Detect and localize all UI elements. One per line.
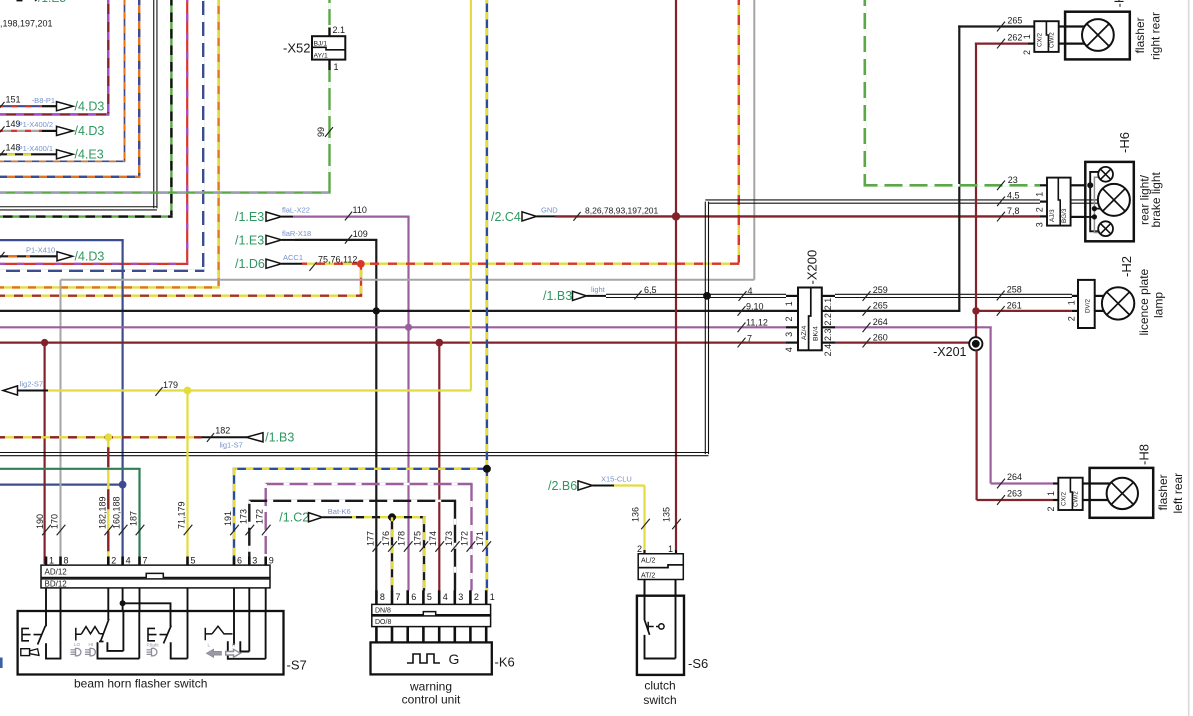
svg-text:/4.D3: /4.D3 (75, 124, 105, 138)
junction dot yellow x108.3 (104, 433, 112, 441)
K6 pin stubs (375, 590, 378, 604)
svg-text:CX/2: CX/2 (1037, 33, 1044, 47)
K6 comb teeth (375, 627, 378, 643)
svg-text:AJ/3: AJ/3 (1049, 209, 1056, 222)
svg-text:/2.C4: /2.C4 (491, 210, 521, 224)
connector AD/12 (41, 565, 270, 577)
S7 switch2 actuator zigzag (76, 627, 104, 641)
h (0, 326, 786, 328)
S7 switch3 cup to pin5 (171, 642, 188, 658)
h (265, 483, 473, 485)
svg-text:warning: warning (409, 680, 452, 694)
svg-text:BJ/1: BJ/1 (314, 41, 328, 48)
arrow /4.D3 row 151 (42, 105, 57, 107)
svg-text:179: 179 (163, 380, 178, 390)
svg-text:/1.E3: /1.E3 (235, 210, 264, 224)
svg-text:AD/12: AD/12 (45, 568, 68, 577)
svg-text:BK/4: BK/4 (813, 326, 820, 341)
junction dot darkred x976 y310.9 (972, 307, 979, 314)
svg-text:/4.E3: /4.E3 (75, 148, 104, 162)
v (643, 486, 645, 551)
svg-text:6: 6 (411, 592, 416, 602)
svg-text:8,26,78,93,197,201: 8,26,78,93,197,201 (585, 206, 659, 216)
v (186, 391, 188, 565)
h (864, 184, 1041, 187)
S6 pin1 drop (675, 596, 677, 659)
svg-text:AZ/4: AZ/4 (801, 325, 808, 340)
svg-text:175: 175 (412, 531, 422, 546)
lamp H2 licence plate (1102, 287, 1134, 319)
v (60, 280, 62, 564)
junction dot ACC1 x361 (357, 260, 365, 268)
svg-text:L: L (208, 643, 211, 648)
h (0, 484, 123, 486)
v (124, 0, 126, 161)
svg-text:177: 177 (365, 531, 375, 546)
svg-text:178: 178 (397, 531, 407, 546)
white stub 4,5 to big lamp (1071, 199, 1098, 201)
svg-text:9,10: 9,10 (746, 301, 764, 311)
stub H8 pin2 darkred (1053, 499, 1058, 501)
arrow /4.E3 row 148 (33, 153, 57, 155)
v (407, 217, 409, 591)
svg-text:-H6: -H6 (1117, 132, 1132, 153)
junction dot darkred x44.6 (41, 339, 48, 346)
svg-text:-S6: -S6 (688, 656, 708, 671)
h (0, 215, 173, 217)
S7 P.light icon (147, 650, 152, 655)
svg-text:lig1-S7: lig1-S7 (220, 440, 243, 449)
stub 4,5 into H6 (1040, 201, 1047, 203)
wire 149 gray/red (0, 130, 42, 132)
S7 switch4 inner cup to pin3 (240, 641, 249, 651)
svg-text:5: 5 (191, 556, 196, 566)
v (989, 327, 991, 483)
svg-text:265: 265 (873, 301, 888, 311)
svg-text:flaR-X18: flaR-X18 (282, 229, 311, 238)
svg-text:136: 136 (631, 507, 641, 522)
H6 internal tail wire (1090, 172, 1099, 231)
S7 LO beam icon (71, 650, 76, 655)
h (0, 176, 140, 178)
arrow lig2-S7 (3, 386, 18, 395)
h (958, 25, 1034, 27)
svg-text:6,5: 6,5 (644, 285, 657, 295)
svg-text:7,8: 7,8 (1007, 206, 1020, 216)
lamp H6 top small (1098, 167, 1113, 182)
cut-off arrow row at top edge (17, 0, 23, 1)
svg-text:DV/2: DV/2 (1085, 299, 1092, 313)
svg-text:264: 264 (873, 317, 888, 327)
svg-text:/1.B3: /1.B3 (265, 431, 294, 445)
K6 square wave symbol (407, 654, 440, 663)
h (61, 279, 755, 281)
svg-text:1: 1 (1022, 34, 1032, 39)
lamp box H8 (1090, 468, 1154, 518)
svg-text:X15-CLU: X15-CLU (601, 474, 632, 483)
svg-text:2: 2 (1046, 506, 1056, 511)
v (328, 0, 330, 29)
connector AT/2 (638, 565, 683, 580)
svg-text:1: 1 (1067, 300, 1077, 305)
h (302, 263, 740, 265)
connector DV/2 of H2 (1078, 280, 1095, 328)
lamp H6 big (1098, 184, 1130, 216)
svg-text:control unit: control unit (402, 693, 461, 707)
svg-text:/4.D3: /4.D3 (75, 250, 105, 264)
svg-text:AT/2: AT/2 (641, 572, 655, 579)
blue tick left edge (0, 658, 3, 669)
svg-text:-H8: -H8 (1137, 444, 1152, 465)
v (753, 0, 755, 280)
H6 internal darkred entry (1085, 216, 1094, 218)
S7 switch1 E symbol (22, 628, 41, 640)
svg-text:/1.B3: /1.B3 (543, 289, 572, 303)
v (43, 343, 45, 564)
stubs H8 connector to lamp box (1083, 482, 1090, 484)
svg-text:151: 151 (6, 94, 21, 104)
svg-text:1: 1 (334, 62, 339, 72)
svg-text:flasher: flasher (1133, 17, 1147, 53)
svg-text:2: 2 (1022, 50, 1032, 55)
h (0, 342, 786, 344)
svg-text:260: 260 (873, 333, 888, 343)
v (248, 501, 250, 564)
svg-text:2.2: 2.2 (823, 313, 833, 326)
svg-text:lamp: lamp (1152, 292, 1166, 318)
K6 box (371, 642, 492, 674)
v (375, 240, 377, 591)
white wire horizontal 4,5 to H6 pin2 (705, 199, 1040, 201)
pin 1 X52 stub (328, 60, 330, 70)
w (0, 453, 709, 456)
stub H2 pin1 (1072, 295, 1078, 297)
svg-text:licence plate: licence plate (1137, 268, 1151, 335)
v (738, 0, 740, 263)
svg-text:173: 173 (238, 509, 248, 524)
h (835, 310, 960, 312)
lamp stubs inside H4 box (1065, 25, 1085, 27)
svg-text:2: 2 (111, 556, 116, 566)
connector X200 right pin stubs (822, 295, 835, 297)
S7 switch1 pin8 drop (60, 611, 62, 643)
arrow /4.D3 row 149 (42, 130, 57, 132)
lamp stubs inside H8 box (1090, 482, 1111, 484)
v (202, 0, 204, 270)
connector BD/12 (41, 579, 270, 588)
pin 2.1 X52 stub (328, 28, 330, 37)
junction dot black x376.3 on 9,10 (373, 307, 380, 314)
junction dot blue x122.6 (119, 481, 127, 489)
v (360, 264, 362, 296)
svg-text:263: 263 (1007, 488, 1022, 498)
svg-text:flaL-X22: flaL-X22 (282, 206, 310, 215)
svg-text:2: 2 (474, 592, 479, 602)
svg-text:1: 1 (784, 301, 794, 306)
h (0, 113, 109, 115)
svg-text:beam horn flasher switch: beam horn flasher switch (74, 677, 207, 691)
svg-text:2.3: 2.3 (823, 328, 833, 341)
svg-text:6: 6 (237, 556, 242, 566)
svg-text:174: 174 (428, 531, 438, 546)
stubs H6 connector to lamp box (1071, 184, 1086, 186)
v (675, 0, 677, 550)
svg-text:23: 23 (1008, 175, 1018, 185)
svg-text:190: 190 (35, 514, 45, 529)
v (454, 501, 456, 591)
S7 pin stubs (45, 557, 48, 566)
svg-text:264: 264 (1007, 472, 1022, 482)
S7 switch4 flasher feed pin6 (233, 611, 235, 645)
v (107, 0, 109, 114)
v (391, 517, 393, 590)
connector X200 box (798, 288, 822, 351)
svg-text:99: 99 (316, 127, 326, 137)
S7 switch1 horn: feed pin1 (45, 611, 47, 626)
svg-text:ACC1: ACC1 (283, 253, 303, 262)
junction dot black x707 (703, 292, 711, 300)
svg-text:lig2-S7: lig2-S7 (20, 379, 43, 388)
h (0, 270, 204, 272)
svg-text:/1.E5: /1.E5 (38, 0, 66, 5)
w (705, 202, 708, 455)
svg-text:3: 3 (252, 556, 257, 566)
S6 pin2 feed and arm (644, 596, 646, 620)
page border right edge (1188, 0, 1190, 716)
svg-text:9: 9 (269, 556, 274, 566)
svg-text:110: 110 (353, 205, 367, 215)
h (0, 239, 124, 241)
S7 switch3 E symbol (148, 628, 167, 640)
v (154, 0, 157, 208)
junction dot black x486.9 (483, 465, 491, 473)
svg-text:4: 4 (748, 286, 753, 296)
v (438, 343, 440, 591)
h (0, 286, 220, 288)
lamp box flasher right rear (1065, 12, 1130, 60)
v (975, 43, 977, 338)
stubs H4 connector to lamp box (1059, 25, 1065, 27)
svg-text:light: light (591, 285, 606, 294)
connector AL/2 (638, 554, 683, 568)
svg-text:109: 109 (353, 229, 368, 239)
connector DN/8 (372, 604, 491, 614)
w (835, 294, 1072, 297)
svg-text:CW/2: CW/2 (1049, 32, 1056, 48)
wire 148 black/yellow (0, 153, 33, 155)
svg-text:4,5: 4,5 (1007, 190, 1020, 200)
H6 internal gray wire (1094, 177, 1099, 232)
connector X52 box (312, 36, 345, 59)
lamp H6 bottom small (1098, 221, 1113, 236)
svg-text:/1.D6: /1.D6 (235, 257, 265, 271)
h (0, 207, 157, 210)
v (470, 0, 472, 391)
svg-text:1: 1 (1034, 192, 1044, 197)
w (606, 294, 786, 297)
svg-text:-X52: -X52 (283, 41, 310, 56)
S7 wires strip to box (45, 588, 47, 611)
v (121, 240, 123, 564)
v (170, 0, 172, 215)
h (0, 436, 202, 438)
svg-text:-K6: -K6 (495, 655, 515, 670)
svg-text:5: 5 (427, 592, 432, 602)
h (295, 239, 377, 241)
v (217, 0, 219, 286)
svg-text:2: 2 (1067, 316, 1077, 321)
svg-text:LO: LO (74, 642, 81, 647)
svg-text:75,76,112: 75,76,112 (318, 254, 357, 264)
S7 right arrow icon (226, 649, 241, 657)
svg-text:BG/3: BG/3 (1061, 208, 1068, 223)
svg-text:HI: HI (89, 642, 94, 647)
S7 pin4 branch junction dot (120, 600, 126, 606)
h (48, 389, 471, 391)
svg-text:BD/12: BD/12 (45, 579, 68, 588)
S7 left arrow icon (207, 649, 222, 657)
junction dot purple x408.5 on 11,12 (405, 324, 412, 331)
junction dot darkred x676 (672, 212, 680, 220)
svg-text:-X201: -X201 (933, 345, 966, 359)
svg-text:-S7: -S7 (287, 658, 307, 673)
h (0, 310, 786, 312)
v (423, 516, 425, 590)
v (975, 350, 977, 500)
connector CX/2 CW/2 of H8 (1058, 478, 1082, 510)
connector X200 left pin stubs (786, 295, 798, 297)
svg-text:-H2: -H2 (1119, 256, 1134, 277)
svg-text:/1.E3: /1.E3 (235, 233, 264, 247)
h (0, 160, 125, 162)
svg-text:8: 8 (64, 556, 69, 566)
S7 HI beam icon (85, 650, 90, 655)
svg-text:DN/8: DN/8 (375, 607, 391, 614)
S7 switch2 inner cup to pin4 (107, 642, 123, 651)
svg-text:1: 1 (49, 556, 54, 566)
h (0, 263, 188, 265)
h (975, 42, 1028, 44)
svg-text:P1-X410: P1-X410 (26, 246, 55, 255)
S7 switch2 arm (101, 619, 109, 642)
S7 switch2 beam: feed pin2 (107, 611, 109, 620)
svg-text:AL/2: AL/2 (641, 558, 656, 565)
svg-text:265: 265 (1007, 15, 1022, 25)
svg-text:182: 182 (215, 426, 230, 436)
svg-text:4: 4 (784, 347, 794, 352)
svg-text:4: 4 (126, 556, 131, 566)
S7 box (18, 611, 284, 675)
svg-text:2: 2 (1034, 207, 1044, 212)
svg-text:172: 172 (459, 531, 469, 546)
svg-text:262: 262 (1007, 33, 1022, 43)
wire 151 blue/red (0, 105, 42, 107)
svg-text:/4.D3: /4.D3 (75, 100, 105, 114)
svg-text:P.light: P.light (147, 642, 160, 647)
lamp box H6 (1085, 162, 1134, 241)
S7 switch1 contact cup (46, 642, 61, 658)
junction dot darkred x439.3 (435, 339, 443, 347)
svg-text:CX/2: CX/2 (1061, 492, 1068, 506)
svg-text:182,189: 182,189 (97, 496, 107, 529)
svg-text:160,188: 160,188 (112, 496, 122, 529)
svg-text:187: 187 (129, 511, 139, 526)
svg-text:3: 3 (784, 332, 794, 337)
v (486, 0, 488, 591)
svg-text:1: 1 (1046, 491, 1056, 496)
h (976, 310, 1072, 312)
svg-text:3: 3 (458, 592, 463, 602)
v (328, 70, 330, 193)
h (614, 484, 645, 486)
connector X201 bullseye (969, 337, 982, 350)
v (107, 437, 109, 564)
svg-text:P1-X400/1: P1-X400/1 (18, 144, 53, 153)
S7 switch2 outer cup to pin7 (98, 642, 140, 658)
S7 switch4 actuator zigzag (205, 626, 232, 640)
h (0, 295, 362, 297)
S6 wires connector to box (644, 580, 646, 596)
svg-text:GND: GND (541, 206, 558, 215)
h (248, 500, 456, 502)
svg-text:3: 3 (1034, 222, 1044, 227)
junction dot black x392 (388, 513, 396, 521)
svg-text:259: 259 (873, 285, 888, 295)
v (265, 484, 267, 564)
svg-text:switch: switch (643, 693, 676, 707)
junction dots H6 (1087, 182, 1093, 188)
svg-text:7: 7 (747, 333, 752, 343)
svg-text:P1-X400/2: P1-X400/2 (18, 120, 53, 129)
svg-text:CW/2: CW/2 (1073, 491, 1080, 507)
v (470, 484, 472, 591)
h (835, 342, 969, 344)
svg-text:-H4: -H4 (1111, 0, 1126, 8)
svg-text:1: 1 (668, 544, 673, 554)
svg-text:-B8-P1: -B8-P1 (32, 96, 55, 105)
S7 switch3 plight arm (164, 626, 172, 644)
stubs H2 to lamp (1095, 295, 1104, 297)
S7 switch4 outer cup to pin9 (228, 641, 266, 659)
svg-text:171: 171 (475, 531, 485, 546)
svg-text:176: 176 (381, 531, 391, 546)
h (977, 499, 1053, 501)
svg-text:71,179: 71,179 (177, 501, 187, 529)
connector DO/8 (372, 616, 491, 627)
svg-text:right rear: right rear (1149, 12, 1163, 60)
v (863, 0, 866, 184)
wire stub (0, 255, 30, 257)
lamp H4 flasher right rear (1082, 19, 1114, 51)
v (958, 25, 960, 311)
connector AJ/3 BG/3 of H6 (1047, 178, 1071, 226)
svg-text:2: 2 (784, 316, 794, 321)
svg-text:7: 7 (396, 592, 401, 602)
svg-text:172: 172 (255, 509, 265, 524)
arrow lig1-S7 /1.B3 (202, 436, 248, 438)
h (991, 482, 1053, 484)
S7 pin4 branch wire to switch3 (123, 603, 171, 626)
svg-text:2.1: 2.1 (333, 25, 346, 35)
svg-text:brake light: brake light (1149, 171, 1163, 227)
svg-text:173: 173 (444, 531, 454, 546)
S7 switch1 arm (38, 626, 46, 645)
v (138, 469, 140, 564)
stub H8 pin1 purple (1053, 482, 1058, 484)
svg-text:G: G (449, 651, 460, 667)
v (138, 0, 140, 177)
svg-text:left rear: left rear (1171, 473, 1185, 514)
